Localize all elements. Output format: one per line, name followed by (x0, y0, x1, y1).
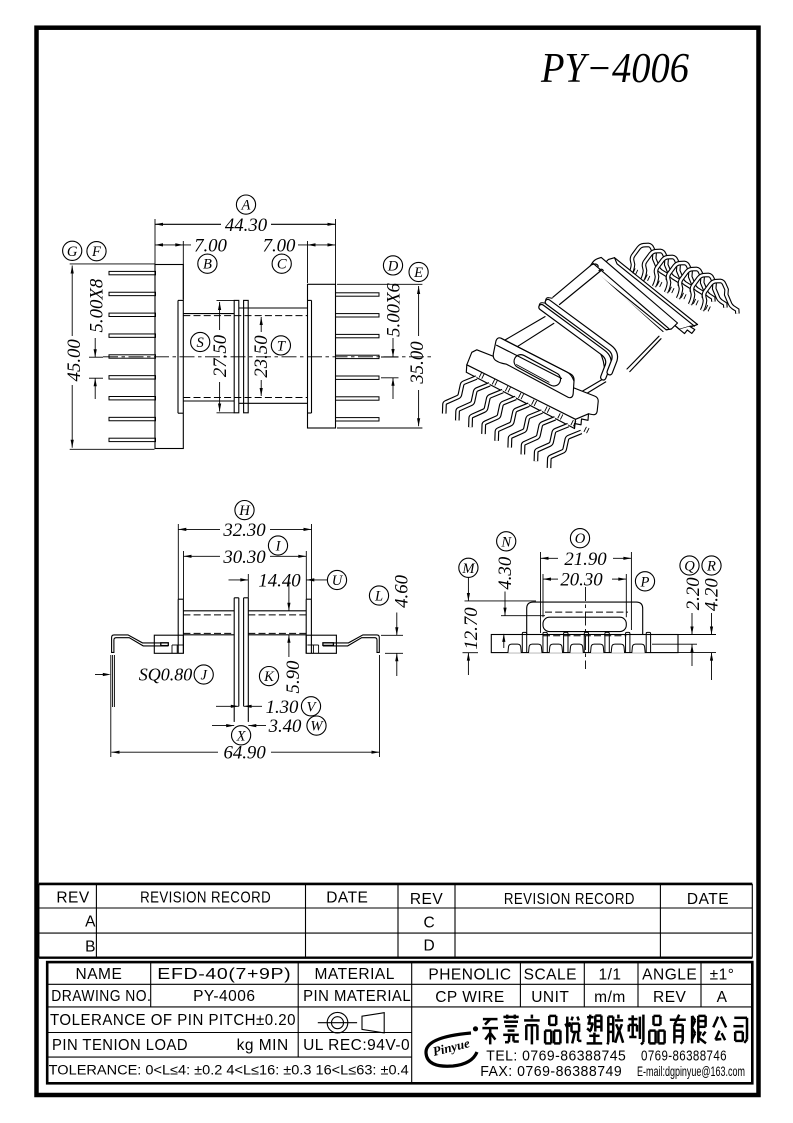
iso middle flange 1 (542, 307, 609, 377)
dim N 4.30 (497, 532, 516, 551)
svg-text:21.90: 21.90 (564, 549, 607, 570)
dim P 20.30 (635, 572, 654, 591)
view1 left flange (177, 300, 179, 413)
svg-text:W: W (310, 719, 324, 735)
svg-text:5.90: 5.90 (283, 660, 304, 693)
svg-text:27.50: 27.50 (210, 334, 231, 377)
view2 tube lines (183, 610, 234, 612)
view2 left flange (177, 599, 179, 653)
dim I 30.30 (268, 536, 287, 555)
svg-text:TOLERANCE OF PIN PITCH±0.20: TOLERANCE OF PIN PITCH±0.20 (50, 1012, 296, 1029)
svg-text:35.00: 35.00 (407, 341, 428, 385)
svg-text:Q: Q (684, 559, 695, 575)
view3 base strip (491, 635, 678, 653)
svg-text:30.30: 30.30 (222, 547, 266, 568)
iso far pins x7 (630, 245, 668, 280)
svg-text:5.00X6: 5.00X6 (384, 283, 405, 337)
view1 T-section tube (239, 307, 308, 309)
svg-text:A: A (85, 913, 96, 930)
dim R 4.20 (702, 556, 721, 575)
label F (87, 242, 106, 261)
dim S 27.50 (191, 332, 210, 351)
svg-text:23.50: 23.50 (251, 335, 272, 378)
svg-text:FAX: 0769-86388749: FAX: 0769-86388749 (480, 1064, 622, 1080)
view1 S-section tube (183, 313, 234, 315)
title block (47, 962, 752, 1083)
svg-text:CP WIRE: CP WIRE (435, 989, 505, 1006)
svg-text:REVISION RECORD: REVISION RECORD (140, 890, 271, 907)
label G (63, 241, 82, 260)
iso tube edges (505, 264, 603, 347)
svg-text:PY−4006: PY−4006 (540, 46, 689, 92)
revision table (39, 883, 752, 886)
svg-text:32.30: 32.30 (222, 520, 266, 541)
svg-text:kg MIN: kg MIN (237, 1037, 289, 1054)
view2 right pin mark (323, 643, 334, 646)
svg-text:D: D (424, 938, 436, 955)
view1 bore hidden lines (183, 315, 307, 317)
dim B 7.00 (198, 254, 217, 273)
svg-text:D: D (387, 258, 399, 274)
dim J SQ0.80 (194, 665, 213, 684)
svg-text:4.30: 4.30 (495, 556, 516, 589)
dim K 5.90 (259, 667, 278, 686)
svg-text:A: A (717, 989, 728, 1006)
svg-text:7.00: 7.00 (194, 235, 227, 256)
svg-text:L: L (374, 589, 383, 605)
svg-text:REV: REV (56, 890, 90, 907)
svg-text:3.40: 3.40 (268, 716, 302, 737)
svg-text:ANGLE: ANGLE (642, 967, 697, 984)
dim 45.00 (70, 263, 155, 265)
svg-text:TOLERANCE: 0<L≤4: ±0.2 4<L≤16: TOLERANCE: 0<L≤4: ±0.2 4<L≤16: ±0.3 16<L… (49, 1063, 410, 1078)
svg-text:G: G (67, 244, 78, 260)
dim A 44.30 (236, 195, 255, 214)
svg-text:P: P (640, 574, 650, 590)
iso far flange (589, 257, 677, 329)
label E (409, 262, 428, 281)
pin pitch symbol (318, 1022, 357, 1024)
iso winding tube (505, 266, 662, 400)
dim W 3.40 (307, 716, 326, 735)
iso near base block (466, 350, 598, 429)
iso near base pin slots (479, 373, 484, 379)
view3 body (527, 602, 643, 634)
iso near pins x9 (444, 378, 476, 414)
svg-text:1.30: 1.30 (266, 697, 299, 718)
svg-text:4.20: 4.20 (701, 578, 722, 611)
iso mid flange caps (539, 298, 552, 306)
svg-text:A: A (241, 198, 251, 214)
svg-text:E: E (413, 265, 423, 281)
svg-text:PHENOLIC: PHENOLIC (428, 967, 511, 984)
iso far base pin slots (633, 269, 638, 275)
view2 right flange (305, 599, 307, 653)
svg-text:PIN MATERIAL: PIN MATERIAL (303, 988, 411, 1005)
svg-text:5.00X8: 5.00X8 (87, 278, 108, 332)
svg-text:12.70: 12.70 (461, 607, 482, 650)
svg-text:44.30: 44.30 (225, 215, 268, 236)
svg-text:O: O (575, 531, 586, 547)
dim Q 2.20 (680, 556, 699, 575)
svg-text:H: H (238, 503, 251, 519)
svg-text:F: F (91, 244, 102, 260)
view3 hidden lines (545, 611, 628, 613)
label D (383, 256, 402, 275)
view3 notches x7 (508, 644, 521, 653)
svg-text:C: C (424, 914, 436, 931)
view2 left pin mark (161, 643, 169, 646)
svg-text:m/m: m/m (594, 989, 626, 1006)
view1 left pins x9 (109, 271, 156, 274)
dim X 64.90 (232, 726, 251, 745)
dim C 7.00 (272, 254, 291, 273)
svg-text:MATERIAL: MATERIAL (315, 966, 395, 983)
view2 right gull-wing lead (323, 635, 379, 653)
svg-text:REV: REV (410, 891, 444, 908)
svg-text:K: K (263, 669, 275, 685)
svg-text:B: B (203, 257, 212, 273)
dim H 32.30 (235, 501, 254, 520)
dim U 14.40 (327, 570, 346, 589)
svg-text:NAME: NAME (76, 966, 123, 983)
view2 right base block (306, 635, 336, 653)
svg-text:REVISION RECORD: REVISION RECORD (504, 891, 635, 908)
company name (stylized) (482, 1019, 498, 1044)
view1 right pins x7 (336, 293, 380, 296)
svg-text:64.90: 64.90 (223, 743, 266, 764)
iso middle flange 2 (548, 302, 615, 372)
iso tube corner arc (590, 342, 605, 380)
svg-text:UNIT: UNIT (531, 989, 569, 1006)
view2 middle flanges (233, 598, 235, 722)
svg-text:20.30: 20.30 (560, 570, 603, 591)
svg-text:±1°: ±1° (710, 967, 735, 984)
svg-text:1/1: 1/1 (598, 967, 621, 984)
svg-text:R: R (706, 559, 716, 575)
dim V 1.30 (301, 697, 320, 716)
dim T 23.50 (271, 336, 290, 355)
svg-text:DATE: DATE (687, 891, 729, 908)
svg-text:T: T (277, 338, 286, 354)
view3 pins x7 (522, 632, 526, 652)
view2 left gull-wing lead (112, 635, 168, 653)
dim M 12.70 (459, 558, 478, 577)
svg-text:TEL: 0769-86388745: TEL: 0769-86388745 (486, 1048, 626, 1064)
svg-text:C: C (277, 257, 287, 273)
iso near flange slot (512, 352, 563, 388)
iso far base block (589, 257, 697, 330)
svg-text:E-mail:dgpinyue@163.com: E-mail:dgpinyue@163.com (637, 1064, 745, 1079)
view3 centerline (585, 587, 587, 669)
svg-text:SCALE: SCALE (524, 967, 577, 984)
view1 right flange (311, 300, 313, 413)
view1 centerline (103, 356, 433, 358)
svg-text:PY-4006: PY-4006 (193, 988, 255, 1005)
svg-text:SQ0.80: SQ0.80 (139, 665, 193, 685)
svg-text:7.00: 7.00 (263, 235, 296, 256)
view1 middle flange 1 (234, 300, 239, 412)
dim L 4.60 (369, 586, 388, 605)
svg-text:N: N (500, 534, 512, 550)
svg-text:4.60: 4.60 (392, 574, 413, 607)
view1 left plate (155, 265, 183, 449)
svg-text:REV: REV (653, 989, 687, 1006)
svg-text:DRAWING NO.: DRAWING NO. (51, 988, 151, 1005)
svg-text:45.00: 45.00 (64, 339, 85, 382)
svg-text:14.40: 14.40 (258, 570, 301, 591)
view1 middle flange 2 (244, 300, 249, 412)
dim 35.00 (337, 283, 422, 285)
svg-text:U: U (332, 573, 344, 589)
svg-text:PIN TENION LOAD: PIN TENION LOAD (52, 1037, 188, 1054)
view2 left base block (154, 635, 183, 653)
svg-text:M: M (461, 561, 475, 577)
view1 right plate (308, 284, 336, 428)
pinyue logo (426, 1033, 477, 1066)
svg-text:EFD-40(7+9P): EFD-40(7+9P) (157, 966, 291, 983)
svg-text:B: B (85, 939, 96, 956)
svg-text:S: S (197, 335, 205, 351)
view3 slot (543, 617, 626, 631)
iso near flange plate (493, 338, 574, 398)
svg-text:0769-86388746: 0769-86388746 (641, 1048, 727, 1064)
dim O 21.90 (570, 529, 589, 548)
view3 inner line (652, 643, 678, 645)
svg-text:DATE: DATE (326, 890, 368, 907)
svg-text:UL REC:94V-0: UL REC:94V-0 (303, 1037, 410, 1054)
